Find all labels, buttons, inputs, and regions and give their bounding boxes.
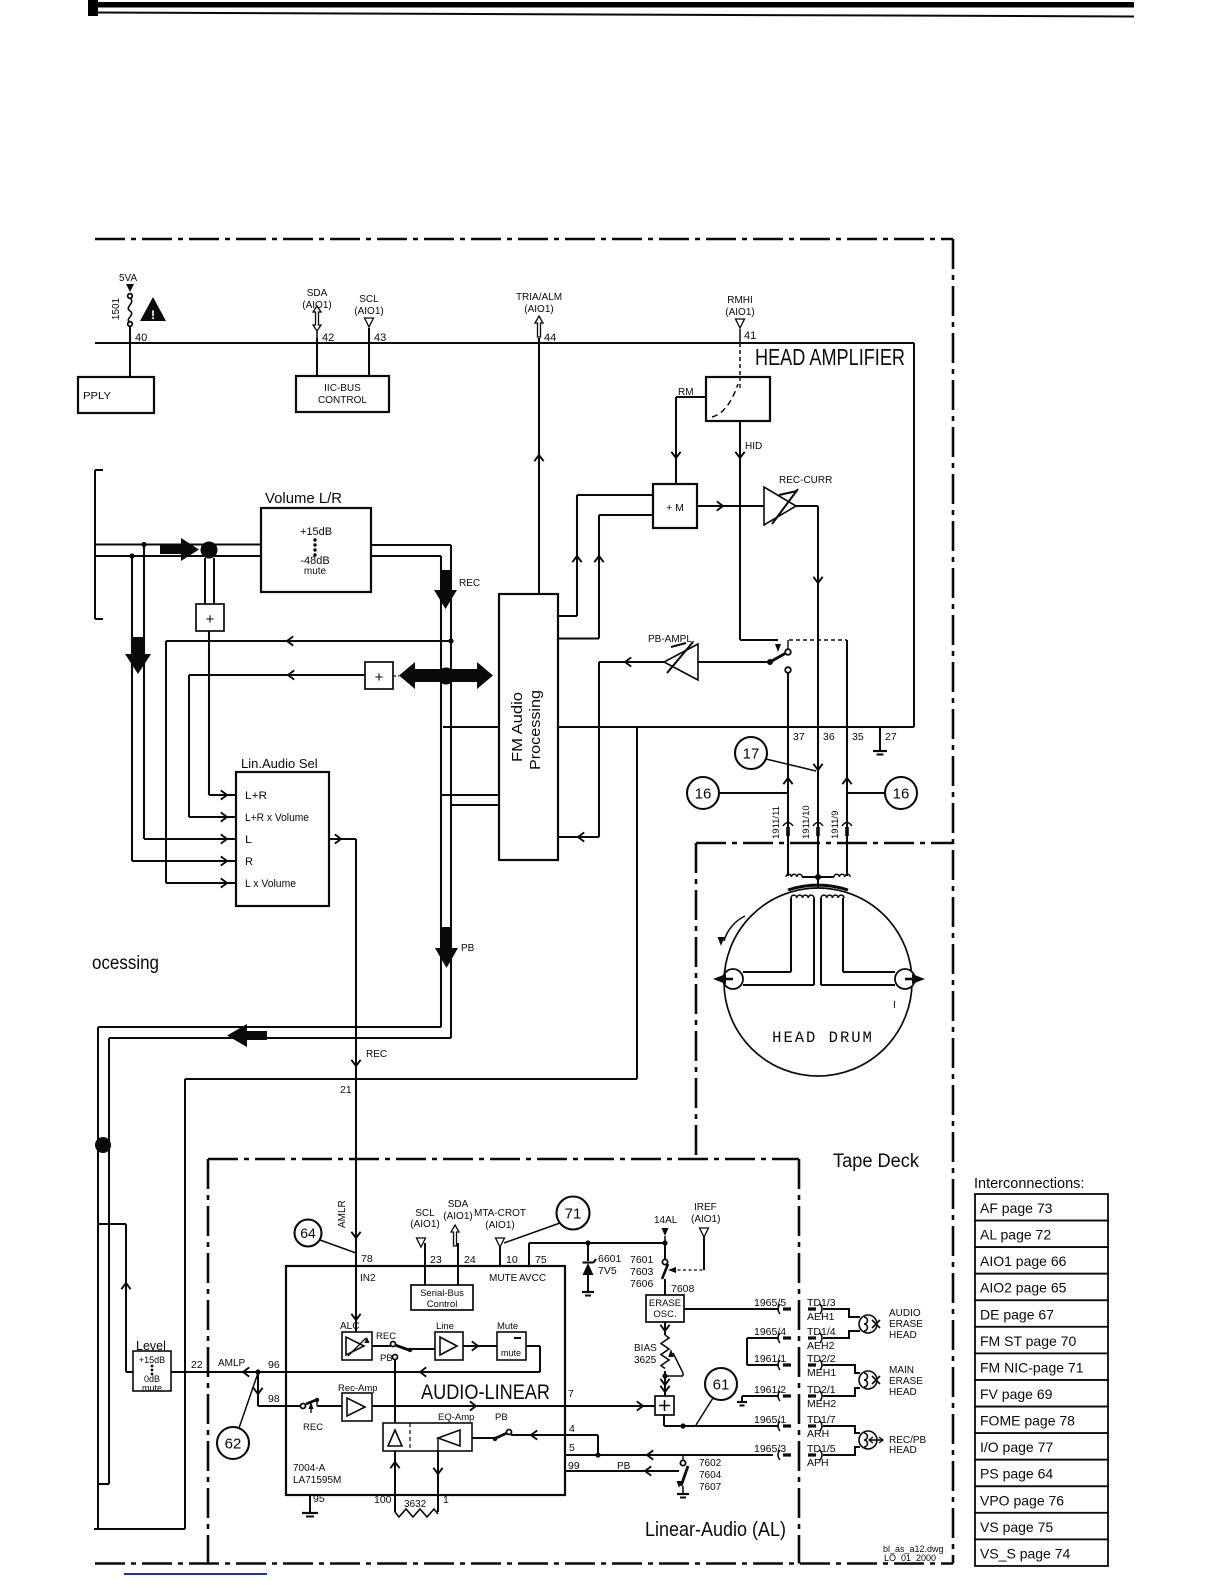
svg-text:44: 44 bbox=[544, 332, 556, 344]
svg-text:TRIA/ALM: TRIA/ALM bbox=[516, 292, 562, 303]
svg-text:7608: 7608 bbox=[671, 1283, 695, 1295]
svg-text:+: + bbox=[375, 669, 384, 686]
svg-text:6601: 6601 bbox=[598, 1253, 622, 1265]
svg-text:(AIO1): (AIO1) bbox=[410, 1219, 439, 1230]
svg-text:(AIO1): (AIO1) bbox=[354, 306, 383, 317]
svg-text:AIO2 page 65: AIO2 page 65 bbox=[980, 1280, 1067, 1296]
svg-text:14AL: 14AL bbox=[654, 1215, 678, 1226]
svg-text:ERASE: ERASE bbox=[889, 1319, 923, 1330]
svg-text:7607: 7607 bbox=[699, 1482, 722, 1493]
svg-text:LA71595M: LA71595M bbox=[293, 1475, 341, 1486]
svg-text:IREF: IREF bbox=[694, 1202, 717, 1213]
svg-text:SCL: SCL bbox=[415, 1208, 435, 1219]
svg-text:L: L bbox=[245, 834, 252, 846]
svg-text:DE page 67: DE page 67 bbox=[980, 1306, 1054, 1322]
svg-text:VPO page 76: VPO page 76 bbox=[980, 1492, 1064, 1508]
svg-text:Line: Line bbox=[436, 1321, 454, 1332]
svg-text:24: 24 bbox=[464, 1254, 476, 1266]
svg-text:1911/11: 1911/11 bbox=[771, 806, 782, 839]
svg-text:7004-A: 7004-A bbox=[293, 1463, 326, 1474]
svg-text:75: 75 bbox=[535, 1254, 547, 1266]
svg-text:41: 41 bbox=[744, 330, 756, 342]
svg-text:100: 100 bbox=[374, 1494, 392, 1506]
svg-text:1961/1: 1961/1 bbox=[754, 1353, 786, 1365]
svg-text:LO_01_2000: LO_01_2000 bbox=[884, 1553, 936, 1563]
svg-text:BIAS: BIAS bbox=[634, 1343, 657, 1354]
svg-text:7601: 7601 bbox=[630, 1254, 654, 1266]
svg-text:+15dB: +15dB bbox=[300, 526, 332, 538]
svg-text:43: 43 bbox=[374, 332, 386, 344]
svg-text:EQ-Amp: EQ-Amp bbox=[438, 1412, 474, 1423]
svg-text:37: 37 bbox=[793, 731, 805, 743]
svg-text:7606: 7606 bbox=[630, 1278, 654, 1290]
svg-text:APH: APH bbox=[807, 1457, 829, 1469]
svg-text:+ M: + M bbox=[666, 502, 684, 514]
svg-text:71: 71 bbox=[565, 1205, 582, 1222]
svg-text:4: 4 bbox=[569, 1423, 575, 1435]
svg-text:mute: mute bbox=[142, 1383, 162, 1393]
svg-text:23: 23 bbox=[430, 1254, 442, 1266]
svg-text:AVCC: AVCC bbox=[519, 1273, 546, 1284]
svg-text:ARH: ARH bbox=[807, 1428, 829, 1440]
svg-text:AF page 73: AF page 73 bbox=[980, 1200, 1053, 1216]
svg-text:AUDIO: AUDIO bbox=[889, 1308, 921, 1319]
svg-text:7604: 7604 bbox=[699, 1470, 722, 1481]
svg-text:98: 98 bbox=[268, 1393, 280, 1405]
svg-text:REC: REC bbox=[376, 1331, 396, 1342]
svg-text:1965/1: 1965/1 bbox=[754, 1414, 786, 1426]
svg-text:22: 22 bbox=[191, 1359, 203, 1371]
svg-text:Linear-Audio (AL): Linear-Audio (AL) bbox=[645, 1519, 786, 1541]
svg-text:AMLR: AMLR bbox=[337, 1200, 348, 1228]
svg-text:FV page 69: FV page 69 bbox=[980, 1386, 1053, 1402]
svg-text:+: + bbox=[206, 611, 215, 628]
svg-text:10: 10 bbox=[506, 1254, 518, 1266]
svg-text:FM ST page 70: FM ST page 70 bbox=[980, 1333, 1076, 1349]
svg-text:HEAD: HEAD bbox=[889, 1445, 917, 1456]
svg-text:PPLY: PPLY bbox=[83, 390, 111, 402]
svg-text:PB: PB bbox=[380, 1353, 393, 1364]
svg-text:VS_S page 74: VS_S page 74 bbox=[980, 1545, 1071, 1561]
svg-text:7602: 7602 bbox=[699, 1458, 722, 1469]
svg-text:FM Audio: FM Audio bbox=[509, 692, 526, 762]
svg-text:Control: Control bbox=[427, 1299, 458, 1310]
svg-text:AL page 72: AL page 72 bbox=[980, 1227, 1051, 1243]
svg-text:I/O page 77: I/O page 77 bbox=[980, 1439, 1053, 1455]
svg-text:5VA: 5VA bbox=[119, 273, 137, 284]
svg-text:35: 35 bbox=[852, 731, 864, 743]
svg-text:(AIO1): (AIO1) bbox=[524, 304, 553, 315]
svg-text:SDA: SDA bbox=[307, 288, 328, 299]
svg-text:PS page 64: PS page 64 bbox=[980, 1466, 1053, 1482]
svg-text:PB-AMPL.: PB-AMPL. bbox=[648, 634, 695, 645]
svg-text:1: 1 bbox=[443, 1494, 449, 1506]
svg-text:REC: REC bbox=[366, 1049, 387, 1060]
svg-text:L x Volume: L x Volume bbox=[245, 878, 296, 890]
svg-text:RMHI: RMHI bbox=[727, 295, 753, 306]
svg-text:1911/9: 1911/9 bbox=[830, 811, 841, 839]
svg-text:Processing: Processing bbox=[527, 690, 544, 770]
svg-text:64: 64 bbox=[300, 1225, 316, 1241]
svg-text:(AIO1): (AIO1) bbox=[485, 1220, 514, 1231]
svg-text:FM NIC-page 71: FM NIC-page 71 bbox=[980, 1359, 1084, 1375]
svg-text:REC: REC bbox=[459, 578, 480, 589]
svg-text:Mute: Mute bbox=[497, 1321, 518, 1332]
svg-text:+15dB: +15dB bbox=[139, 1355, 165, 1365]
svg-text:REC: REC bbox=[303, 1422, 323, 1433]
svg-text:ERASE: ERASE bbox=[889, 1376, 923, 1387]
svg-text:HID: HID bbox=[745, 441, 762, 452]
svg-text:42: 42 bbox=[322, 332, 334, 344]
svg-text:Lin.Audio Sel: Lin.Audio Sel bbox=[241, 756, 318, 771]
svg-text:3632: 3632 bbox=[404, 1499, 427, 1510]
svg-text:IIC-BUS: IIC-BUS bbox=[324, 383, 361, 394]
svg-text:REC-CURR: REC-CURR bbox=[779, 475, 832, 486]
svg-text:1965/5: 1965/5 bbox=[754, 1297, 786, 1309]
svg-text:AUDIO-LINEAR: AUDIO-LINEAR bbox=[421, 1381, 550, 1404]
svg-text:Tape Deck: Tape Deck bbox=[833, 1150, 919, 1172]
svg-text:1501: 1501 bbox=[111, 297, 122, 320]
svg-text:7603: 7603 bbox=[630, 1266, 654, 1278]
svg-text:5: 5 bbox=[569, 1442, 575, 1454]
svg-text:1961/2: 1961/2 bbox=[754, 1384, 786, 1396]
svg-text:3625: 3625 bbox=[634, 1355, 657, 1366]
svg-text:62: 62 bbox=[225, 1435, 242, 1452]
svg-text:PB: PB bbox=[461, 943, 475, 954]
svg-text:AMLP: AMLP bbox=[218, 1358, 246, 1369]
svg-text:ocessing: ocessing bbox=[92, 953, 159, 974]
svg-text:17: 17 bbox=[743, 745, 760, 762]
svg-text:L+R: L+R bbox=[245, 790, 267, 802]
svg-text:HEAD: HEAD bbox=[889, 1387, 917, 1398]
svg-text:95: 95 bbox=[313, 1493, 325, 1505]
svg-text:Volume L/R: Volume L/R bbox=[265, 490, 342, 507]
svg-text:Serial-Bus: Serial-Bus bbox=[420, 1288, 464, 1299]
svg-text:16: 16 bbox=[893, 785, 910, 802]
svg-text:61: 61 bbox=[713, 1376, 730, 1393]
svg-text:HEAD DRUM: HEAD DRUM bbox=[772, 1029, 874, 1047]
svg-text:L+R x Volume: L+R x Volume bbox=[245, 812, 309, 824]
svg-text:VS page 75: VS page 75 bbox=[980, 1519, 1053, 1535]
svg-text:mute: mute bbox=[501, 1348, 521, 1358]
svg-text:Interconnections:: Interconnections: bbox=[974, 1176, 1084, 1192]
svg-text:!: ! bbox=[151, 308, 155, 322]
svg-text:OSC.: OSC. bbox=[653, 1309, 676, 1320]
svg-text:7V5: 7V5 bbox=[598, 1265, 617, 1277]
svg-text:SCL: SCL bbox=[359, 294, 379, 305]
svg-text:HEAD AMPLIFIER: HEAD AMPLIFIER bbox=[755, 344, 905, 370]
svg-text:(AIO1): (AIO1) bbox=[725, 307, 754, 318]
svg-text:1965/4: 1965/4 bbox=[754, 1326, 786, 1338]
svg-text:40: 40 bbox=[135, 332, 147, 344]
svg-text:78: 78 bbox=[361, 1253, 373, 1265]
svg-text:AIO1 page 66: AIO1 page 66 bbox=[980, 1253, 1067, 1269]
svg-text:1911/10: 1911/10 bbox=[801, 805, 812, 839]
svg-text:27: 27 bbox=[885, 731, 897, 743]
svg-text:MTA-CROT: MTA-CROT bbox=[474, 1208, 526, 1219]
svg-text:CONTROL: CONTROL bbox=[318, 395, 367, 406]
svg-text:mute: mute bbox=[304, 566, 327, 577]
svg-text:SDA: SDA bbox=[448, 1199, 469, 1210]
svg-text:(AIO1): (AIO1) bbox=[443, 1211, 472, 1222]
svg-text:7: 7 bbox=[568, 1388, 574, 1400]
svg-text:16: 16 bbox=[695, 785, 712, 802]
svg-text:1965/3: 1965/3 bbox=[754, 1443, 786, 1455]
svg-text:ERASE: ERASE bbox=[649, 1298, 681, 1309]
svg-text:R: R bbox=[245, 856, 253, 868]
svg-text:HEAD: HEAD bbox=[889, 1330, 917, 1341]
svg-text:IN2: IN2 bbox=[360, 1273, 376, 1284]
svg-text:FOME page 78: FOME page 78 bbox=[980, 1413, 1075, 1429]
svg-text:PB: PB bbox=[495, 1412, 508, 1423]
svg-text:I: I bbox=[893, 1000, 896, 1011]
svg-text:21: 21 bbox=[340, 1084, 352, 1096]
svg-text:MAIN: MAIN bbox=[889, 1365, 914, 1376]
svg-text:MUTE: MUTE bbox=[489, 1273, 518, 1284]
svg-text:(AIO1): (AIO1) bbox=[691, 1214, 720, 1225]
svg-text:96: 96 bbox=[268, 1359, 280, 1371]
svg-text:36: 36 bbox=[823, 731, 835, 743]
